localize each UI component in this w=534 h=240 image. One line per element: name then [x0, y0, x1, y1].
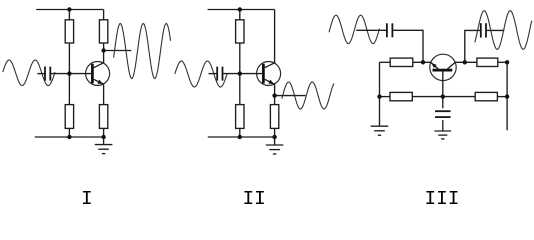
svg-text:III: III	[424, 188, 459, 207]
svg-text:I: I	[81, 188, 93, 207]
svg-text:II: II	[243, 188, 266, 207]
